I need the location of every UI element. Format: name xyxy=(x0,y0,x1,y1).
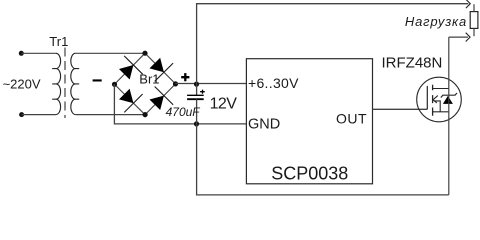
svg-text:Br1: Br1 xyxy=(139,71,159,86)
bridge rectifier Br1 diamond edges xyxy=(115,53,176,114)
svg-text:SCP0038: SCP0038 xyxy=(271,164,348,184)
diode D-upper-right (anode AC top, cathode plus) xyxy=(150,58,174,82)
svg-text:Нагрузка: Нагрузка xyxy=(405,14,467,29)
load pin bottom xyxy=(473,28,475,36)
node bridge top corner xyxy=(142,51,147,56)
wire top rail xyxy=(197,4,469,84)
transistor Q1 body stub with arrow to source xyxy=(433,96,440,112)
svg-text:+6..30V: +6..30V xyxy=(248,75,299,91)
capacitor C1 wire top xyxy=(196,84,198,95)
transistor Q1 gate electrode xyxy=(426,86,428,109)
svg-text:~220V: ~220V xyxy=(3,77,41,92)
wire secondary top to bridge top corner xyxy=(75,52,145,54)
transistor Q1 circle xyxy=(417,77,462,122)
label plus output xyxy=(181,73,189,81)
node capacitor plus xyxy=(194,82,199,87)
arrow to load top xyxy=(466,0,470,8)
capacitor C1 plate top xyxy=(187,94,204,96)
diode D-upper-left (anode minus, cathode AC top) xyxy=(119,56,143,80)
svg-text:OUT: OUT xyxy=(336,111,367,127)
transistor Q1 source stub xyxy=(433,111,449,113)
svg-text:IRFZ48N: IRFZ48N xyxy=(382,54,443,71)
transformer Tr1 primary winding xyxy=(52,53,60,114)
wire primary bottom lead xyxy=(22,114,56,116)
IC U1 box SCP0038 xyxy=(246,59,372,184)
transformer Tr1 secondary winding xyxy=(71,53,79,114)
wire minus output down and GND to box xyxy=(114,84,246,124)
wire drain to load arrow xyxy=(449,36,468,38)
node bridge right corner xyxy=(173,81,178,86)
wire drain vertical through mosfet xyxy=(448,37,450,195)
body zener diode triangle xyxy=(443,96,453,104)
svg-text:GND: GND xyxy=(248,117,280,133)
AC source terminal bottom xyxy=(19,112,24,117)
svg-text:Tr1: Tr1 xyxy=(49,34,68,49)
diode D-lower-left (anode minus, cathode AC bottom) xyxy=(119,89,143,113)
wire plus output to node and box +6..30V xyxy=(176,83,247,85)
capacitor C1 wire bottom xyxy=(196,99,198,124)
wire primary top lead xyxy=(21,52,56,54)
diode D-lower-right (anode AC bottom, cathode plus) xyxy=(150,86,174,110)
transistor Q1 channel segments xyxy=(432,85,434,116)
node bridge left corner xyxy=(112,82,117,87)
node capacitor minus xyxy=(194,121,199,126)
capacitor polarity plus small xyxy=(200,90,205,94)
wire cap to bottom rail xyxy=(197,124,449,195)
body zener diode bar xyxy=(441,93,457,98)
transistor Q1 drain stub xyxy=(433,88,449,90)
capacitor C1 plate bottom xyxy=(187,98,204,100)
wire OUT to gate xyxy=(373,108,428,110)
svg-text:470uF: 470uF xyxy=(166,105,201,119)
wire secondary bottom to bridge bottom corner xyxy=(75,114,145,116)
load pin top xyxy=(473,4,475,11)
transformer core xyxy=(64,48,66,119)
arrow to load bottom xyxy=(466,33,470,42)
label minus output xyxy=(93,79,102,81)
node bridge bottom corner xyxy=(143,112,148,117)
AC source terminal top xyxy=(19,51,24,56)
svg-text:12V: 12V xyxy=(210,96,238,113)
load resistor Нагрузка xyxy=(470,12,478,29)
